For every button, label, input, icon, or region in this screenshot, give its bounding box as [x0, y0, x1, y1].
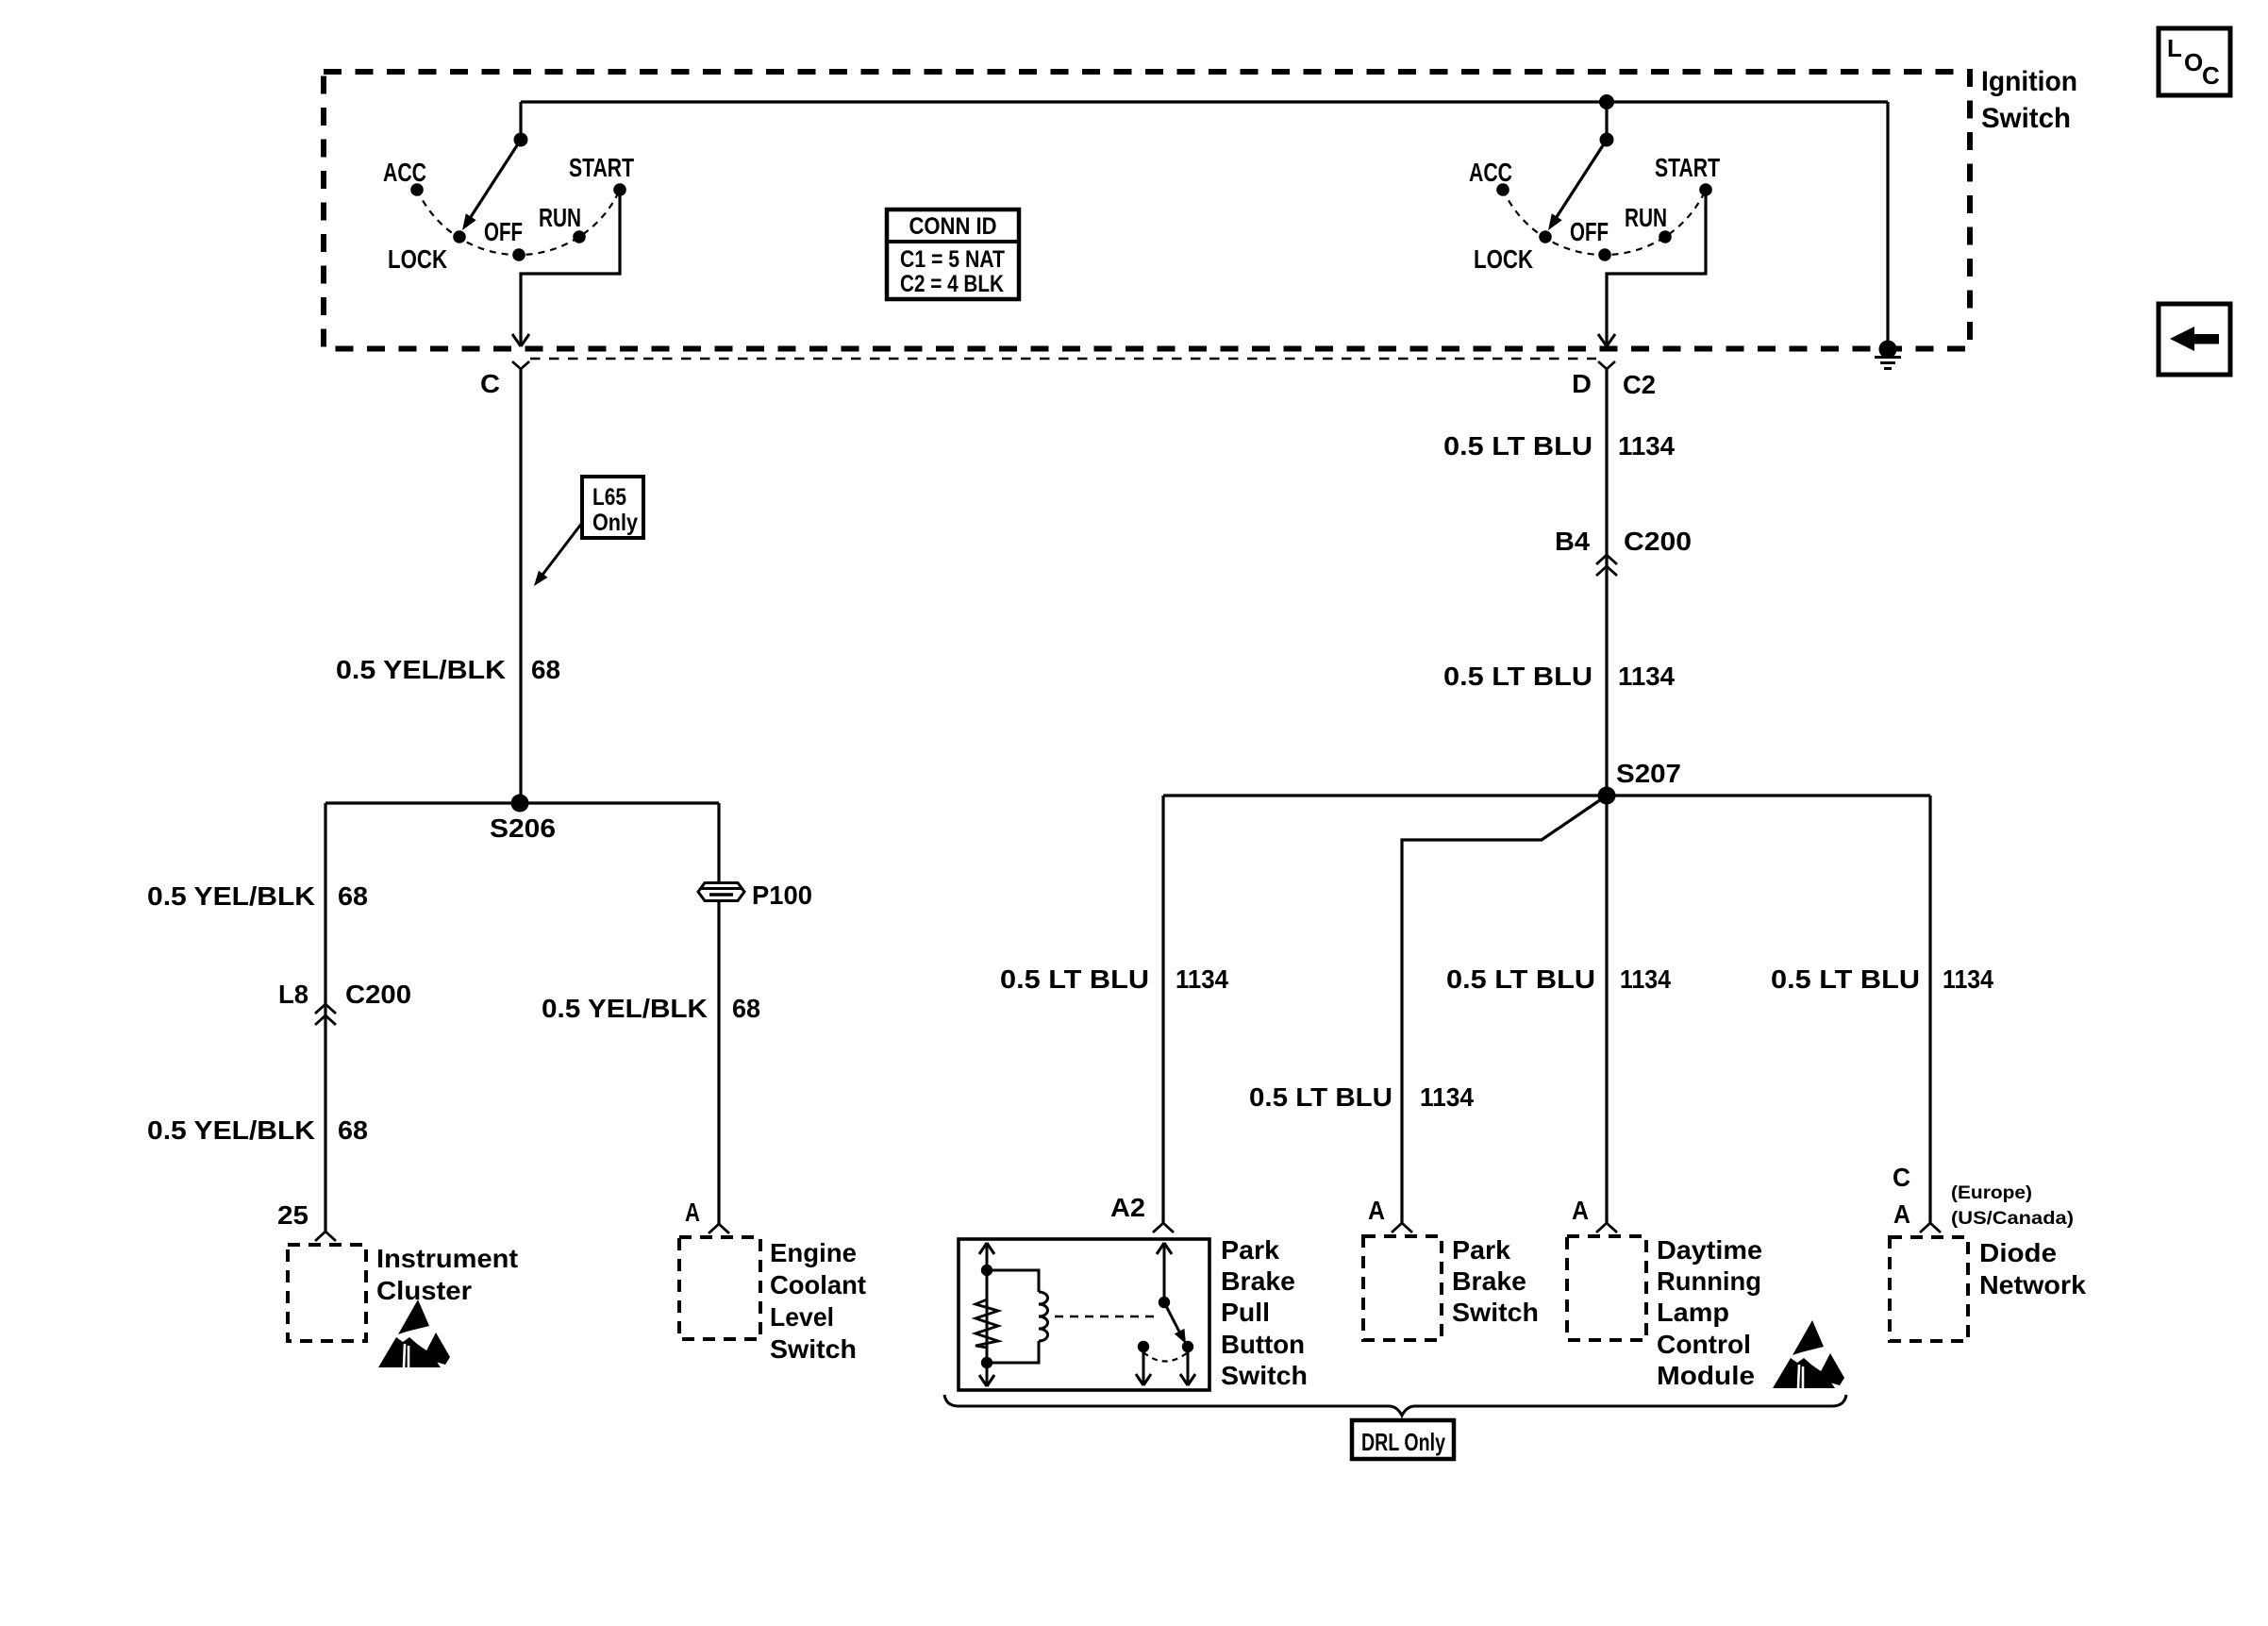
- svg-text:Coolant: Coolant: [770, 1270, 866, 1299]
- svg-text:68: 68: [338, 881, 368, 911]
- svg-text:ACC: ACC: [383, 158, 426, 187]
- svg-text:Ignition: Ignition: [1981, 66, 2077, 97]
- svg-text:C200: C200: [1624, 527, 1692, 556]
- svg-text:C2 = 4 BLK: C2 = 4 BLK: [900, 271, 1004, 297]
- svg-text:START: START: [1655, 153, 1720, 182]
- svg-text:Switch: Switch: [1221, 1361, 1308, 1390]
- svg-text:RUN: RUN: [1625, 203, 1667, 232]
- svg-text:(Europe): (Europe): [1951, 1183, 2032, 1203]
- svg-text:C1 = 5 NAT: C1 = 5 NAT: [900, 246, 1005, 273]
- svg-text:Button: Button: [1221, 1330, 1305, 1359]
- svg-text:C: C: [2202, 61, 2220, 90]
- svg-text:Park: Park: [1452, 1235, 1510, 1265]
- svg-text:1134: 1134: [1618, 431, 1675, 461]
- svg-text:A2: A2: [1110, 1193, 1145, 1222]
- svg-text:0.5 LT BLU: 0.5 LT BLU: [1771, 964, 1920, 994]
- svg-text:Diode: Diode: [1979, 1238, 2057, 1267]
- svg-text:A: A: [685, 1198, 700, 1227]
- svg-text:68: 68: [531, 655, 560, 684]
- svg-text:START: START: [569, 153, 634, 182]
- svg-text:Lamp: Lamp: [1657, 1298, 1729, 1327]
- svg-text:A: A: [1893, 1199, 1910, 1229]
- svg-text:OFF: OFF: [484, 217, 523, 246]
- svg-text:Brake: Brake: [1221, 1266, 1295, 1296]
- svg-text:1134: 1134: [1620, 964, 1671, 994]
- svg-text:P100: P100: [752, 880, 812, 910]
- svg-text:0.5 LT BLU: 0.5 LT BLU: [1443, 662, 1593, 691]
- svg-text:L8: L8: [278, 980, 309, 1009]
- svg-text:ACC: ACC: [1469, 158, 1512, 187]
- svg-text:Daytime: Daytime: [1657, 1235, 1762, 1265]
- svg-text:Level: Level: [770, 1302, 834, 1332]
- svg-text:Running: Running: [1657, 1266, 1761, 1296]
- svg-text:OFF: OFF: [1570, 217, 1609, 246]
- svg-text:68: 68: [338, 1115, 368, 1145]
- svg-text:0.5 LT BLU: 0.5 LT BLU: [1249, 1082, 1392, 1112]
- svg-text:D: D: [1572, 369, 1592, 398]
- svg-text:Switch: Switch: [770, 1334, 857, 1364]
- svg-text:Instrument: Instrument: [376, 1244, 518, 1273]
- svg-text:1134: 1134: [1176, 964, 1228, 994]
- svg-text:25: 25: [277, 1200, 309, 1230]
- svg-text:0.5 LT BLU: 0.5 LT BLU: [1446, 964, 1595, 994]
- svg-text:C: C: [480, 369, 500, 398]
- svg-text:1134: 1134: [1943, 964, 1993, 994]
- svg-text:Pull: Pull: [1221, 1298, 1270, 1327]
- svg-text:C: C: [1893, 1163, 1910, 1192]
- svg-text:LOCK: LOCK: [1474, 244, 1533, 274]
- svg-text:A: A: [1368, 1196, 1385, 1225]
- svg-text:Switch: Switch: [1452, 1298, 1539, 1327]
- svg-text:Control: Control: [1657, 1330, 1751, 1359]
- svg-text:Only: Only: [592, 510, 638, 536]
- svg-text:L: L: [2167, 34, 2182, 62]
- svg-text:Engine: Engine: [770, 1238, 857, 1267]
- svg-text:Switch: Switch: [1981, 103, 2071, 134]
- svg-text:RUN: RUN: [539, 203, 581, 232]
- svg-text:DRL Only: DRL Only: [1361, 1428, 1445, 1456]
- svg-text:0.5 LT BLU: 0.5 LT BLU: [1000, 964, 1149, 994]
- svg-text:L65: L65: [592, 484, 626, 511]
- svg-text:B4: B4: [1555, 527, 1590, 556]
- svg-text:Park: Park: [1221, 1235, 1279, 1265]
- svg-text:C200: C200: [345, 980, 411, 1009]
- svg-text:CONN ID: CONN ID: [909, 213, 997, 240]
- svg-text:0.5 YEL/BLK: 0.5 YEL/BLK: [147, 881, 315, 911]
- svg-text:S206: S206: [490, 813, 556, 843]
- svg-text:O: O: [2184, 48, 2203, 76]
- svg-text:Brake: Brake: [1452, 1266, 1526, 1296]
- svg-text:68: 68: [732, 994, 760, 1023]
- svg-text:1134: 1134: [1420, 1082, 1474, 1112]
- svg-text:(US/Canada): (US/Canada): [1951, 1209, 2074, 1229]
- svg-text:LOCK: LOCK: [388, 244, 447, 274]
- svg-text:Network: Network: [1979, 1270, 2086, 1299]
- svg-text:Module: Module: [1657, 1361, 1755, 1390]
- svg-text:C2: C2: [1623, 370, 1656, 399]
- svg-text:Cluster: Cluster: [376, 1276, 472, 1305]
- svg-text:1134: 1134: [1618, 662, 1675, 691]
- svg-text:0.5 YEL/BLK: 0.5 YEL/BLK: [147, 1115, 315, 1145]
- svg-text:0.5 LT BLU: 0.5 LT BLU: [1443, 431, 1593, 461]
- svg-text:0.5 YEL/BLK: 0.5 YEL/BLK: [336, 655, 506, 684]
- svg-text:0.5 YEL/BLK: 0.5 YEL/BLK: [542, 994, 708, 1023]
- svg-text:S207: S207: [1616, 759, 1681, 788]
- svg-text:A: A: [1572, 1196, 1589, 1225]
